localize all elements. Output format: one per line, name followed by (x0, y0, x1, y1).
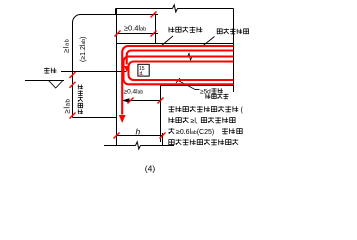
slab bottom line (161, 85, 234, 87)
vertical dimension line at left (72, 23, 74, 118)
red dimension ticks (70, 12, 166, 139)
svg-text:≥l,: ≥l, (191, 118, 198, 125)
note line3 CJK c (237, 129, 242, 134)
bottom break line of wall (104, 145, 174, 147)
slab top line (117, 43, 234, 45)
sub dimension line below hook (122, 100, 161, 102)
svg-text:(4): (4) (145, 163, 156, 173)
rebar U1: outer U-shaped bar (124, 57, 234, 85)
rebar P1: top bar bent down into wall with arrow (122, 46, 233, 115)
break tick on red bar U1 top (188, 54, 193, 61)
arrowhead of rebar P1 (119, 115, 126, 123)
wall outer face (116, 9, 118, 143)
sub dimension left arrowhead (122, 98, 130, 103)
label to-centerline CJK (205, 94, 228, 99)
text label: wan-zhe (bend) (44, 68, 56, 74)
arrowhead of rebar P2 (124, 66, 129, 72)
svg-text:≥0.6lab(C25): ≥0.6lab(C25) (176, 129, 214, 136)
note line3 CJK b (222, 128, 235, 134)
h dimension line (117, 135, 163, 137)
top dimension line T1 with break symbol (116, 8, 234, 10)
extension line between T2 and slab top (155, 15, 157, 44)
rebar U2: inner U-shaped bar (129, 62, 234, 81)
leader to wall outer bar label (203, 37, 215, 47)
level symbol triangle (49, 81, 63, 89)
note line3 CJK a (169, 128, 175, 134)
note line2 CJK b (201, 117, 235, 123)
leader from dimension line corner to bar arrow (73, 117, 117, 119)
rebar P2: second bar bent down with arrow (127, 51, 234, 65)
top dimension line T2 with fillet corner (73, 15, 159, 23)
leader to bottom bar label with tick (176, 78, 200, 90)
note line2 CJK a (169, 117, 189, 123)
15d box (138, 64, 149, 76)
h dimension extension lines (117, 133, 163, 146)
label wall outer vertical bars CJK (217, 29, 248, 34)
note line1 CJK (169, 106, 239, 112)
level symbol line (25, 80, 64, 82)
leader to top bar label (161, 36, 173, 46)
note line4 CJK (169, 139, 239, 145)
label top through bars CJK (169, 27, 203, 33)
svg-text:(≥1.2lab): (≥1.2lab) (80, 37, 87, 62)
svg-text:d.: d. (140, 71, 144, 77)
dimension line for 0.4lab (116, 33, 158, 35)
wall inner face (160, 86, 162, 143)
label ge5d CJK part (212, 88, 223, 93)
svg-text:≥0.4lab: ≥0.4lab (124, 89, 144, 96)
svg-text:h: h (136, 126, 141, 136)
rotated label wall outer bar CJK column (78, 85, 83, 115)
leader line of bend label (61, 71, 126, 73)
slab cut edge right (233, 9, 235, 93)
